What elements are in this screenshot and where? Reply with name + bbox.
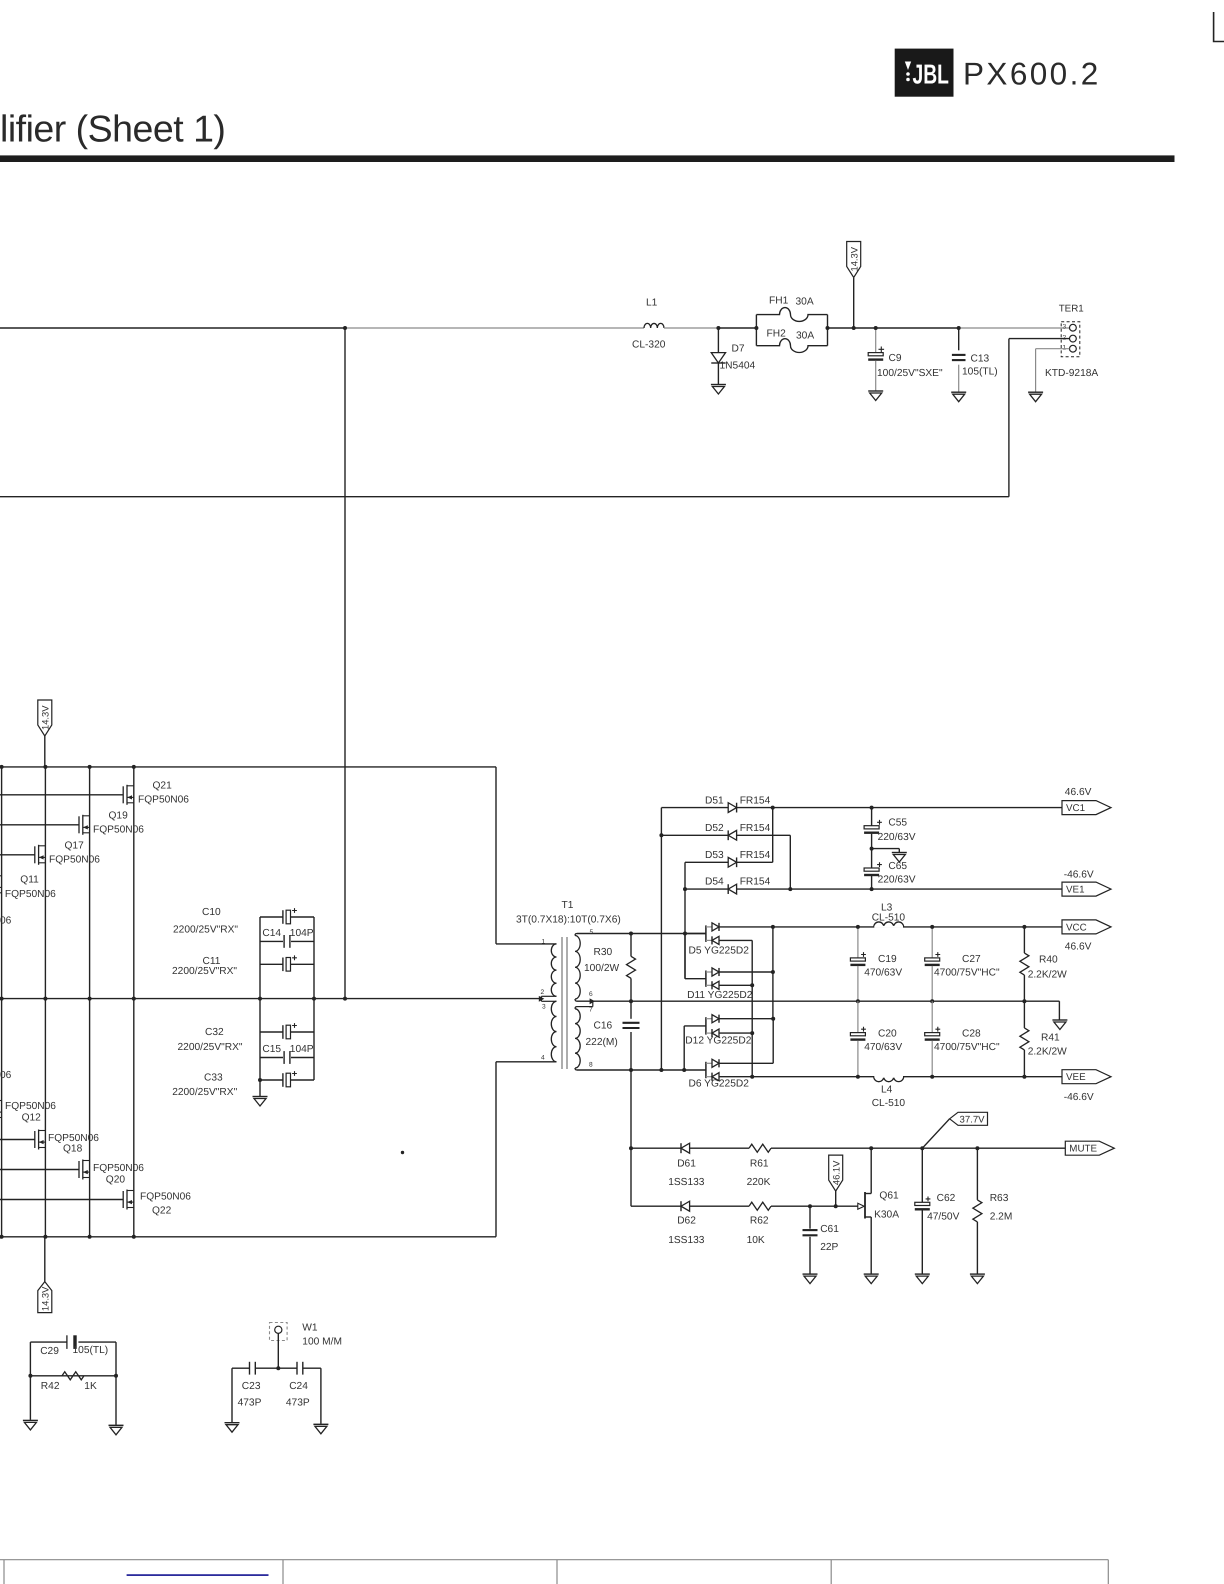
svg-text:KTD-9218A: KTD-9218A [1045,368,1098,379]
svg-text:2.2K/2W: 2.2K/2W [1028,970,1067,981]
svg-text:D6 YG225D2: D6 YG225D2 [689,1079,750,1090]
svg-text:22P: 22P [820,1242,838,1253]
svg-text:T1: T1 [562,900,574,911]
svg-text:222(M): 222(M) [586,1037,618,1048]
svg-text:2200/25V"RX": 2200/25V"RX" [173,924,238,935]
svg-text:14.3V: 14.3V [849,246,860,271]
svg-text:6: 6 [589,991,593,998]
svg-text:Q17: Q17 [65,840,85,851]
svg-text:C61: C61 [820,1224,839,1235]
svg-text:100/25V"SXE": 100/25V"SXE" [877,368,943,379]
svg-text:3T(0.7X18):10T(0.7X6): 3T(0.7X18):10T(0.7X6) [516,914,621,925]
svg-text:R63: R63 [990,1193,1009,1204]
svg-text:C20: C20 [878,1029,897,1040]
svg-text:FR154: FR154 [740,850,771,861]
svg-text:104P: 104P [290,928,314,939]
svg-text:2200/25V"RX": 2200/25V"RX" [178,1042,243,1053]
svg-text:D62: D62 [677,1216,696,1227]
svg-text:L4: L4 [881,1084,893,1095]
svg-text:Q20: Q20 [106,1174,126,1185]
svg-text:D52: D52 [705,823,724,834]
svg-text:D11 YG225D2: D11 YG225D2 [687,990,753,1001]
svg-text:47/50V: 47/50V [927,1212,959,1223]
svg-text:FR154: FR154 [740,823,771,834]
svg-text:C33: C33 [204,1073,223,1084]
svg-text:4700/75V"HC": 4700/75V"HC" [934,1042,1000,1053]
svg-text:1: 1 [542,938,546,945]
svg-text:14.3V: 14.3V [40,705,51,730]
svg-text:D51: D51 [705,795,724,806]
svg-text:C15: C15 [262,1044,281,1055]
svg-text:TER1: TER1 [1059,304,1084,315]
svg-text:VE1: VE1 [1066,885,1085,896]
svg-text:1SS133: 1SS133 [668,1177,705,1188]
svg-text:30A: 30A [796,330,814,341]
svg-text:220/63V: 220/63V [878,875,916,886]
svg-text:CL-320: CL-320 [632,340,666,351]
svg-text:2200/25V"RX": 2200/25V"RX" [172,966,237,977]
svg-text:3: 3 [1063,324,1067,331]
svg-text:W1: W1 [302,1322,318,1333]
svg-text:104P: 104P [290,1044,314,1055]
svg-text:220K: 220K [747,1177,771,1188]
svg-text:Q18: Q18 [63,1144,83,1155]
svg-text:4: 4 [541,1054,545,1061]
svg-text:5: 5 [590,929,594,936]
svg-text:Q19: Q19 [109,810,129,821]
svg-text:2: 2 [541,989,545,996]
svg-text:473P: 473P [238,1398,262,1409]
svg-text:06: 06 [0,915,12,926]
svg-text:FQP50N06: FQP50N06 [49,855,100,866]
svg-text:4700/75V"HC": 4700/75V"HC" [934,967,1000,978]
svg-text:MUTE: MUTE [1069,1144,1097,1155]
svg-text:R61: R61 [750,1158,769,1169]
svg-text:06: 06 [0,1070,12,1081]
svg-text:30A: 30A [796,297,814,308]
svg-text:JBL: JBL [913,59,949,90]
svg-text:D7: D7 [732,344,745,355]
svg-text:470/63V: 470/63V [864,1042,902,1053]
svg-text:C32: C32 [205,1027,224,1038]
svg-text:Q12: Q12 [22,1112,42,1123]
svg-text:VC1: VC1 [1066,803,1085,814]
svg-text:FR154: FR154 [740,795,771,806]
svg-text:D54: D54 [705,877,724,888]
svg-text:C9: C9 [889,353,902,364]
svg-text:FH1: FH1 [769,295,789,306]
svg-text:C29: C29 [40,1346,59,1357]
svg-text:37.7V: 37.7V [960,1114,986,1125]
svg-text:FR154: FR154 [740,877,771,888]
svg-text:FQP50N06: FQP50N06 [93,825,144,836]
svg-text:105(TL): 105(TL) [962,367,998,378]
svg-text:1SS133: 1SS133 [668,1235,705,1246]
svg-text:C65: C65 [888,861,907,872]
svg-text:C10: C10 [202,907,221,918]
svg-text:FQP50N06: FQP50N06 [5,889,56,900]
svg-text:46.6V: 46.6V [1065,787,1092,798]
svg-text:FQP50N06: FQP50N06 [140,1192,191,1203]
svg-text:Q22: Q22 [152,1206,172,1217]
svg-text:FQP50N06: FQP50N06 [5,1101,56,1112]
svg-text:C62: C62 [937,1193,956,1204]
svg-text:K30A: K30A [874,1210,899,1221]
svg-text:10K: 10K [747,1235,765,1246]
svg-text:2.2M: 2.2M [990,1212,1013,1223]
svg-text:R40: R40 [1039,954,1058,965]
svg-text:VCC: VCC [1066,922,1087,933]
svg-text:473P: 473P [286,1398,310,1409]
svg-text:C55: C55 [888,818,907,829]
svg-text:Q21: Q21 [153,780,173,791]
svg-text:2.2K/2W: 2.2K/2W [1028,1047,1067,1058]
svg-text:1N5404: 1N5404 [720,361,756,372]
svg-text:3: 3 [542,1004,546,1011]
svg-text:Q11: Q11 [20,874,39,885]
svg-text:C28: C28 [962,1029,981,1040]
svg-text:D12 YG225D2: D12 YG225D2 [685,1036,751,1047]
svg-text:Q61: Q61 [879,1191,899,1202]
svg-text:C24: C24 [289,1381,308,1392]
svg-text:-46.6V: -46.6V [1064,1092,1094,1103]
svg-text:46.6V: 46.6V [1065,942,1092,953]
svg-text:7: 7 [589,1007,593,1014]
svg-text:C27: C27 [962,954,981,965]
svg-text:100/2W: 100/2W [584,963,619,974]
svg-text:C14: C14 [262,928,281,939]
svg-text:FQP50N06: FQP50N06 [48,1133,99,1144]
svg-text:CL-510: CL-510 [872,1098,906,1109]
svg-text:220/63V: 220/63V [878,832,916,843]
svg-text:105(TL): 105(TL) [73,1345,109,1356]
svg-text:lifier (Sheet 1): lifier (Sheet 1) [0,108,225,150]
svg-text:D53: D53 [705,850,724,861]
svg-text:FQP50N06: FQP50N06 [93,1163,144,1174]
svg-text:R62: R62 [750,1216,769,1227]
svg-text:R30: R30 [594,947,613,958]
svg-text:470/63V: 470/63V [864,967,902,978]
svg-text:2200/25V"RX": 2200/25V"RX" [172,1087,237,1098]
svg-text:8: 8 [589,1062,593,1069]
svg-text:D5 YG225D2: D5 YG225D2 [689,946,750,957]
svg-text:L1: L1 [646,298,658,309]
svg-text:-46.6V: -46.6V [1064,869,1094,880]
svg-text:14.3V: 14.3V [40,1286,51,1311]
svg-text:C16: C16 [594,1020,613,1031]
svg-text:C23: C23 [242,1381,261,1392]
svg-text:FQP50N06: FQP50N06 [138,795,189,806]
svg-text:VEE: VEE [1066,1072,1086,1083]
svg-text:D61: D61 [677,1158,696,1169]
svg-text:CL-510: CL-510 [872,913,906,924]
svg-text:46.1V: 46.1V [831,1160,842,1185]
svg-text:PX600.2: PX600.2 [963,56,1101,92]
svg-text:100 M/M: 100 M/M [302,1336,342,1347]
svg-text:R42: R42 [41,1381,60,1392]
svg-text:C19: C19 [878,954,897,965]
svg-text:R41: R41 [1041,1033,1060,1044]
svg-text:1K: 1K [84,1381,97,1392]
svg-text:FH2: FH2 [767,329,787,340]
svg-text:C13: C13 [971,354,990,365]
